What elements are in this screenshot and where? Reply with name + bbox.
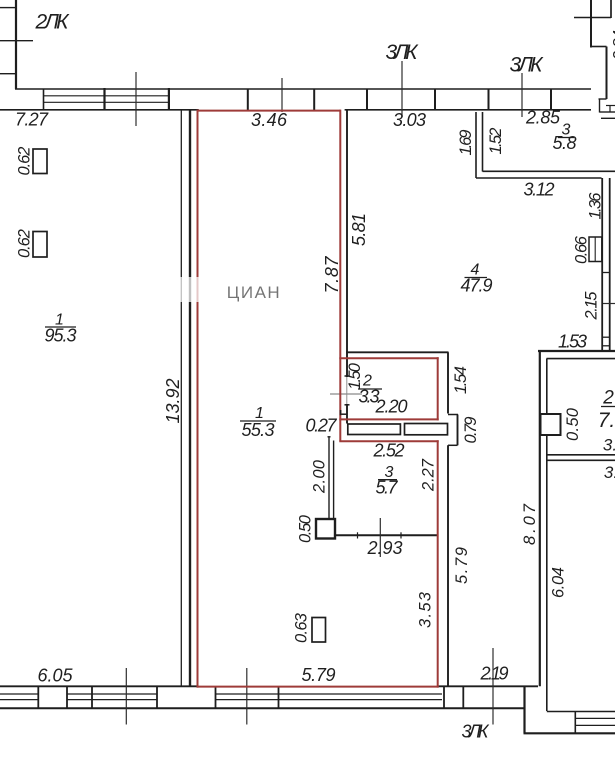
svg-text:55.3: 55.3: [242, 420, 275, 440]
svg-text:0.27: 0.27: [306, 416, 338, 436]
svg-text:1.52: 1.52: [487, 128, 505, 155]
svg-text:2.84: 2.84: [611, 30, 615, 61]
svg-text:2.27: 2.27: [420, 458, 438, 492]
svg-text:1.50: 1.50: [346, 362, 364, 390]
svg-text:2.19: 2.19: [480, 664, 509, 684]
svg-text:5.79: 5.79: [453, 547, 471, 584]
svg-text:0.62: 0.62: [16, 229, 34, 258]
svg-text:7.27: 7.27: [15, 110, 49, 130]
svg-text:2.15: 2.15: [583, 291, 601, 321]
svg-text:8.07: 8.07: [521, 503, 539, 545]
svg-text:2.93: 2.93: [367, 538, 403, 558]
svg-text:ЦИАН: ЦИАН: [227, 283, 281, 302]
svg-text:2.52: 2.52: [373, 441, 405, 461]
svg-text:1.36: 1.36: [587, 192, 605, 220]
svg-text:5.81: 5.81: [349, 213, 369, 246]
svg-text:1.54: 1.54: [452, 366, 470, 394]
svg-text:5.79: 5.79: [302, 665, 336, 685]
svg-text:3.: 3.: [603, 436, 615, 455]
svg-text:6.04: 6.04: [550, 567, 568, 598]
svg-text:3ЛК: 3ЛК: [510, 54, 545, 77]
svg-text:3.46: 3.46: [251, 110, 288, 130]
svg-text:3.53: 3.53: [417, 591, 435, 628]
svg-text:13.92: 13.92: [163, 379, 183, 424]
svg-text:2: 2: [602, 388, 614, 409]
svg-text:3.03: 3.03: [393, 110, 426, 130]
svg-text:6.05: 6.05: [38, 666, 74, 686]
svg-text:5.8: 5.8: [553, 133, 577, 153]
svg-text:0.50: 0.50: [564, 407, 582, 441]
svg-text:3.12: 3.12: [524, 180, 555, 200]
svg-text:95.3: 95.3: [45, 326, 77, 346]
svg-text:7.87: 7.87: [322, 256, 342, 294]
svg-text:2ЛК: 2ЛК: [35, 11, 71, 34]
svg-text:0.63: 0.63: [293, 612, 311, 643]
svg-text:0.50: 0.50: [297, 514, 315, 543]
svg-text:1.53: 1.53: [558, 332, 587, 352]
svg-text:3ЛК: 3ЛК: [386, 41, 420, 64]
svg-text:47.9: 47.9: [461, 276, 493, 296]
svg-text:0.62: 0.62: [16, 147, 34, 176]
svg-text:3.: 3.: [604, 463, 615, 482]
svg-text:7.: 7.: [598, 409, 615, 432]
svg-text:2.00: 2.00: [311, 459, 329, 494]
svg-text:0.79: 0.79: [462, 417, 480, 444]
svg-text:5.7: 5.7: [376, 478, 399, 498]
svg-text:0.66: 0.66: [573, 235, 591, 264]
svg-text:2.85: 2.85: [525, 108, 561, 128]
svg-text:1.69: 1.69: [457, 130, 475, 156]
svg-text:3ЛК: 3ЛК: [462, 722, 490, 742]
